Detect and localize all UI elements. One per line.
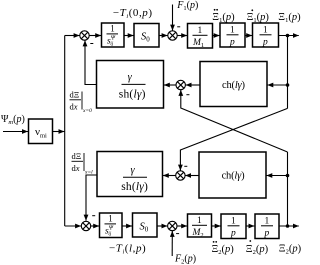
wire: bus to summing junction J1 <box>65 35 80 37</box>
block 1/p second upper <box>253 23 279 48</box>
wire: 1/p to 1/p upper <box>245 35 252 37</box>
svg-text:Ξ1(p): Ξ1(p) <box>247 12 270 24</box>
wire: Psi_m input into nu block <box>3 131 28 133</box>
summing junction J6 <box>168 221 180 233</box>
svg-text:−Ti(0,p): −Ti(0,p) <box>113 7 153 20</box>
wire: S0 to summing junction J6 <box>157 225 167 227</box>
wire: F2 input arrow up into J6 <box>171 231 173 256</box>
svg-text:p: p <box>230 229 236 239</box>
wire: output Xi2 with arrow <box>279 225 299 227</box>
wire: bus to summing junction J5 <box>65 225 81 227</box>
wire: left vertical bus <box>64 36 66 227</box>
block gamma/sh(l gamma) upper <box>97 61 164 109</box>
wire: J1 to 1/s block <box>89 35 101 37</box>
node: ch1 feed dot <box>286 83 290 87</box>
svg-text:1: 1 <box>265 217 270 227</box>
node: ch2 feed dot <box>286 174 290 178</box>
wire: Xi1 into ch1 <box>267 84 287 86</box>
summing junction J2 <box>168 27 180 40</box>
label Xi.2(p) below <box>246 240 269 256</box>
wire: J6 to 1/M2 <box>177 225 187 227</box>
wire: Xi1 vertical drop <box>287 36 289 109</box>
svg-text:S0: S0 <box>141 32 150 44</box>
block S0 upper <box>134 24 159 48</box>
svg-text:γ: γ <box>131 165 136 176</box>
label Xi..1(p) (second derivative) <box>212 9 235 24</box>
summing junction J4 <box>176 166 188 180</box>
svg-text:sh(lγ): sh(lγ) <box>119 89 146 101</box>
block ch(l gamma) lower <box>199 152 266 198</box>
wire: ch1 to summing junction J3 <box>186 84 200 86</box>
wire: F1 input arrow into J2 <box>172 5 174 31</box>
svg-text:F2(p): F2(p) <box>174 254 196 265</box>
wire: 1/M1 to first 1/p upper <box>213 35 220 37</box>
node: Xi1 branch dot <box>286 34 290 38</box>
svg-text:p: p <box>262 38 268 48</box>
wire: ch2 to summing junction J4 <box>185 175 199 177</box>
wire: cross D1 from Xi1 drop to J4 (minus input) <box>180 108 287 170</box>
wire: J3 to gamma/sh upper <box>164 84 176 86</box>
label Xi.1(p) (first derivative) <box>247 9 270 23</box>
block 1/M1 <box>188 24 213 50</box>
summing junction J5 <box>81 216 95 231</box>
block 1/s^Psi upper <box>102 23 125 47</box>
wire: J2 to 1/M1 <box>177 35 187 37</box>
svg-text:p: p <box>229 38 235 48</box>
block gamma/sh(l gamma) lower <box>97 152 163 197</box>
svg-text:dx: dx <box>70 102 78 112</box>
block S0 lower <box>133 213 158 237</box>
svg-text:Ξ2(p): Ξ2(p) <box>279 243 301 255</box>
svg-text:dΞ: dΞ <box>72 151 82 161</box>
block 1/p first upper <box>220 23 245 48</box>
block nu_mi <box>29 119 53 144</box>
wire: Xi2 into ch2 <box>266 175 287 177</box>
svg-text:M2: M2 <box>192 228 204 239</box>
wire: 1/s to S0 lower <box>122 225 132 227</box>
wire: cross D2 from Xi2 rise to J3 (minus input) <box>181 90 288 152</box>
svg-text:dx: dx <box>72 163 80 173</box>
wire: Xi2 vertical rise <box>287 152 289 226</box>
block 1/p second lower <box>255 214 279 239</box>
svg-text:p: p <box>264 229 270 239</box>
svg-text:F1(p): F1(p) <box>176 0 198 12</box>
svg-text:1: 1 <box>230 26 235 36</box>
svg-text:M1: M1 <box>192 38 204 49</box>
summing junction J1 <box>80 31 94 44</box>
svg-text:ch(lγ): ch(lγ) <box>222 80 245 91</box>
svg-text:γ: γ <box>128 72 133 83</box>
svg-text:ch(lγ): ch(lγ) <box>222 170 245 181</box>
svg-text:1: 1 <box>110 24 115 34</box>
svg-text:S0: S0 <box>140 222 149 234</box>
block 1/p first lower <box>221 214 246 239</box>
label dXi/dx at x=l <box>72 151 94 176</box>
svg-text:Ξ2(p): Ξ2(p) <box>246 244 269 256</box>
svg-text:1: 1 <box>197 216 202 226</box>
svg-text:νmi: νmi <box>35 126 47 140</box>
svg-text:x=l: x=l <box>84 170 93 176</box>
node: Xi2 branch dot <box>286 224 290 228</box>
svg-text:1: 1 <box>108 214 113 224</box>
label dXi/dx at x=0 <box>70 90 93 115</box>
svg-text:sΨij: sΨij <box>107 35 116 48</box>
summing junction J3 <box>176 80 189 94</box>
wire: J4 to gamma/sh lower <box>163 175 176 177</box>
svg-text:sh(lγ): sh(lγ) <box>121 181 148 193</box>
block ch(l gamma) upper <box>200 62 267 107</box>
block 1/M2 <box>188 214 212 239</box>
wire: output Xi1 with arrow <box>279 35 299 37</box>
wire: gamma/sh1 feedback up into J1 <box>85 40 97 84</box>
block 1/s^Psi lower <box>100 213 123 238</box>
wire: S0 to summing junction J2 <box>159 35 168 37</box>
wire: 1/p to 1/p lower <box>246 225 254 227</box>
svg-text:1: 1 <box>198 26 203 36</box>
wire: 1/s to S0 upper <box>124 35 134 37</box>
svg-text:Ψm(p): Ψm(p) <box>1 114 25 126</box>
wire: nu_mi output to bus <box>53 131 65 133</box>
svg-text:Ξ2(p): Ξ2(p) <box>212 244 235 256</box>
wire: 1/M2 to first 1/p lower <box>212 225 221 227</box>
svg-text:1: 1 <box>231 217 236 227</box>
label Xi..2(p) below <box>212 241 235 256</box>
wire: gamma/sh2 feedback down into J5 <box>86 175 97 221</box>
svg-text:Ξ1(p): Ξ1(p) <box>278 12 301 24</box>
svg-text:sΨij: sΨij <box>105 225 114 238</box>
svg-text:x=0: x=0 <box>82 108 92 114</box>
svg-text:1: 1 <box>263 26 268 36</box>
svg-text:−Ti(l,p): −Ti(l,p) <box>109 242 146 255</box>
svg-text:dΞ: dΞ <box>70 90 80 100</box>
wire: J5 to 1/s block lower <box>91 225 100 227</box>
